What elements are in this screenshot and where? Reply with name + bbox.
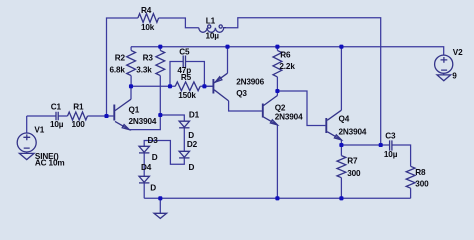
svg-text:Q4: Q4 (339, 114, 350, 123)
svg-text:R7: R7 (347, 156, 358, 165)
svg-text:C5: C5 (179, 47, 190, 56)
svg-text:AC 10m: AC 10m (35, 159, 65, 168)
svg-text:2.2k: 2.2k (279, 62, 295, 71)
svg-text:D2: D2 (187, 140, 198, 149)
svg-text:D: D (150, 184, 156, 193)
svg-text:10µ: 10µ (206, 32, 220, 41)
svg-text:10µ: 10µ (384, 150, 398, 159)
svg-text:Q2: Q2 (275, 104, 286, 113)
svg-text:3.3k: 3.3k (136, 65, 152, 74)
svg-text:R8: R8 (415, 168, 426, 177)
svg-text:6.8k: 6.8k (110, 65, 126, 74)
svg-text:100: 100 (72, 120, 86, 129)
svg-text:C3: C3 (385, 131, 396, 140)
svg-text:C1: C1 (51, 103, 62, 112)
svg-text:2N3906: 2N3906 (236, 78, 264, 87)
svg-text:2N3904: 2N3904 (129, 117, 157, 126)
svg-text:D1: D1 (189, 111, 200, 120)
svg-text:300: 300 (415, 180, 429, 189)
svg-text:9: 9 (452, 72, 457, 81)
svg-text:10µ: 10µ (50, 120, 64, 129)
svg-text:Q1: Q1 (129, 106, 140, 115)
svg-text:D3: D3 (148, 136, 159, 145)
svg-text:R1: R1 (73, 103, 84, 112)
svg-text:D: D (152, 153, 158, 162)
svg-text:L1: L1 (206, 16, 216, 25)
svg-text:150k: 150k (178, 91, 196, 100)
svg-text:R6: R6 (280, 51, 291, 60)
svg-text:R5: R5 (181, 73, 192, 82)
svg-text:2N3904: 2N3904 (339, 128, 367, 137)
svg-text:300: 300 (347, 169, 361, 178)
svg-text:D: D (188, 131, 194, 140)
svg-text:2N3904: 2N3904 (275, 112, 303, 121)
svg-text:10k: 10k (141, 23, 155, 32)
svg-text:R4: R4 (141, 6, 152, 15)
svg-text:V2: V2 (453, 48, 463, 57)
svg-text:R3: R3 (143, 54, 154, 63)
svg-text:R2: R2 (115, 54, 126, 63)
svg-text:Q3: Q3 (236, 89, 247, 98)
svg-text:D: D (189, 163, 195, 172)
svg-text:V1: V1 (34, 126, 44, 135)
svg-text:D4: D4 (141, 163, 152, 172)
